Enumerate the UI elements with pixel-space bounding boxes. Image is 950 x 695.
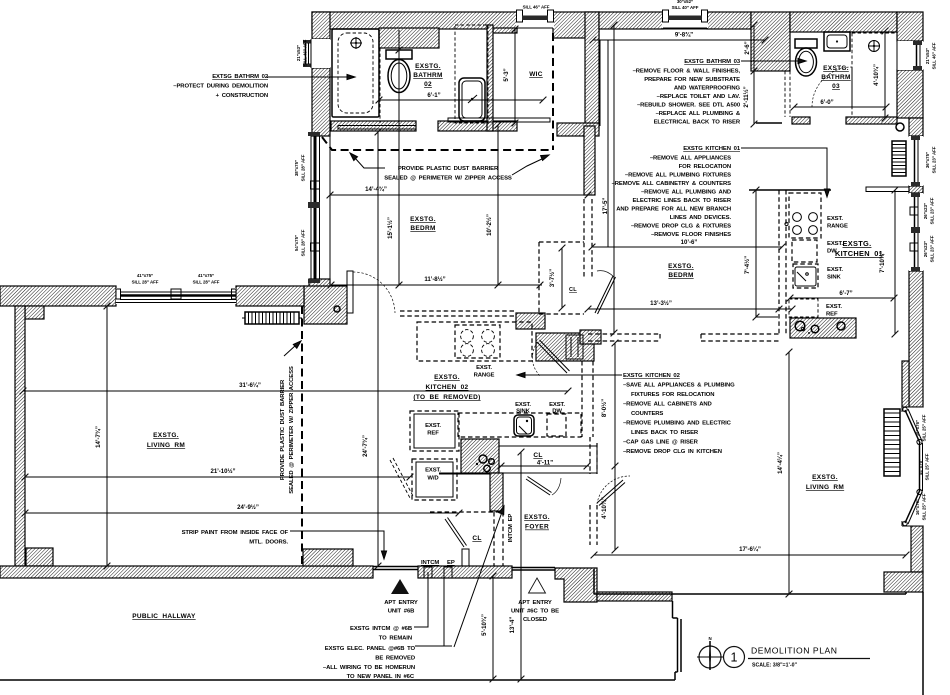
wall bathroom03 bottom stub east	[846, 117, 897, 124]
note bath02	[173, 74, 269, 99]
label exst range k01	[827, 216, 848, 230]
wall mid column below WIC	[584, 126, 595, 195]
svg-text:EXSTG.: EXSTG.	[524, 514, 550, 521]
svg-text:COUNTERS: COUNTERS	[631, 411, 663, 417]
wall notch above WIC	[493, 28, 517, 33]
svg-text:EXSTG.: EXSTG.	[843, 239, 872, 248]
shower dashes bath03	[851, 33, 853, 117]
wall top right corner	[897, 12, 923, 41]
dim 14'-4 3/4"	[327, 186, 592, 198]
svg-text:LIVING RM: LIVING RM	[147, 442, 185, 449]
ANNOTATION TEXT	[173, 59, 848, 680]
svg-text:EXSTG.: EXSTG.	[812, 474, 838, 481]
door arc bath03	[812, 67, 852, 107]
ROOM LABELS	[132, 63, 883, 620]
ref kitchen01	[789, 299, 818, 317]
svg-text:ELECTRIC LINES BACK TO RISER: ELECTRIC LINES BACK TO RISER	[633, 198, 732, 204]
svg-text:SINK: SINK	[516, 409, 531, 415]
svg-text:EXST.: EXST.	[826, 304, 842, 310]
svg-text:PREPARE FOR NEW SUBSTRATE: PREPARE FOR NEW SUBSTRATE	[644, 77, 740, 83]
svg-text:11’-8½”: 11’-8½”	[424, 276, 445, 283]
svg-text:BEDRM: BEDRM	[668, 272, 693, 279]
svg-text:CLOSED: CLOSED	[523, 617, 547, 623]
closet CL 4-11	[499, 446, 597, 473]
svg-text:EXSTG ELEC. PANEL @#6B TO: EXSTG ELEC. PANEL @#6B TO	[325, 646, 416, 652]
svg-text:36”x75”: 36”x75”	[925, 152, 930, 168]
window W7 kitchen01 east lower	[914, 233, 916, 267]
svg-text:EP: EP	[447, 560, 455, 566]
dim 21'-10 1/2"	[22, 468, 414, 480]
svg-text:–REMOVE ALL CABINETRY & COUNTE: –REMOVE ALL CABINETRY & COUNTERS	[612, 181, 732, 187]
dim 13'-4"	[509, 449, 524, 683]
sill label W4	[925, 42, 937, 69]
svg-text:EXSTG.: EXSTG.	[153, 432, 179, 439]
wall top band unit C mid	[707, 12, 751, 29]
dim 6'-1"	[376, 92, 547, 103]
FIXTURES	[332, 25, 904, 578]
svg-text:INTCM EP: INTCM EP	[508, 514, 514, 543]
foyer wall circles	[439, 455, 494, 474]
svg-text:SILL 23” AFF: SILL 23” AFF	[930, 235, 935, 262]
sill label W6	[923, 197, 935, 224]
svg-text:8’-0½”: 8’-0½”	[601, 399, 608, 417]
wall right side pier y118	[909, 118, 923, 136]
dim 3'-7 1/2" closet	[549, 245, 565, 312]
wall WIC east column	[585, 12, 599, 129]
svg-text:STRIP PAINT FROM INSIDE FACE O: STRIP PAINT FROM INSIDE FACE OF	[182, 530, 289, 536]
window W9 bedroom A west lower	[308, 208, 320, 283]
svg-text:–CAP GAS LINE @ RISER: –CAP GAS LINE @ RISER	[623, 440, 699, 446]
door in kitchen02 block	[566, 335, 583, 359]
dim 6'-0"	[791, 99, 890, 110]
svg-text:UNIT #6B: UNIT #6B	[388, 609, 415, 615]
svg-text:REF: REF	[826, 312, 838, 318]
sill label bay bottom	[915, 493, 927, 520]
dust barrier WIC vertical	[552, 33, 554, 150]
svg-text:CL: CL	[533, 452, 542, 459]
wire hallway threshold west gap	[373, 566, 418, 568]
svg-text:–PROTECT DURING DEMOLITION: –PROTECT DURING DEMOLITION	[173, 84, 268, 90]
svg-text:–REMOVE ALL PLUMBING AND: –REMOVE ALL PLUMBING AND	[641, 190, 731, 196]
svg-text:3’-7½”: 3’-7½”	[549, 269, 556, 287]
wall hallway pilaster mid	[303, 549, 353, 566]
svg-text:31’-6¼”: 31’-6¼”	[239, 382, 261, 389]
svg-text:SINK: SINK	[827, 275, 842, 281]
label exst sink k01	[827, 267, 843, 281]
wall hallway band main	[0, 566, 373, 578]
dim 17'-6 1/4"	[591, 546, 910, 558]
svg-text:WIC: WIC	[529, 71, 543, 78]
svg-text:ELECTRICAL BACK TO RISER: ELECTRICAL BACK TO RISER	[654, 120, 741, 126]
dim 14'-7 3/4"	[95, 303, 110, 570]
kitchen01 west dashed wall	[779, 190, 786, 334]
dust barrier living vertical	[301, 306, 303, 566]
svg-text:FIXTURES FOR RELOCATION: FIXTURES FOR RELOCATION	[631, 392, 714, 398]
leader dust barrier left	[348, 151, 385, 168]
wire right outline below wall	[922, 592, 924, 695]
note kitchen01	[612, 146, 741, 238]
wall west wing below window	[312, 68, 330, 136]
wall top band over bathroom02 tub	[312, 12, 517, 29]
window W6 kitchen01 east upper	[909, 193, 923, 271]
svg-text:41”x75”: 41”x75”	[137, 273, 153, 278]
door leaf kitchen02	[532, 340, 569, 376]
svg-text:16”x76”: 16”x76”	[915, 420, 920, 436]
label exst dw k02	[549, 402, 565, 415]
dim 31'-6 1/4"	[20, 382, 572, 394]
lav bath03	[824, 32, 850, 51]
svg-text:EXST.: EXST.	[549, 402, 565, 408]
svg-text:INTCM: INTCM	[421, 560, 439, 566]
svg-text:–REMOVE ALL CABINETS AND: –REMOVE ALL CABINETS AND	[623, 402, 712, 408]
svg-text:+ CONSTRUCTION: + CONSTRUCTION	[216, 93, 268, 99]
svg-text:4’-10¾”: 4’-10¾”	[873, 64, 880, 86]
svg-text:RANGE: RANGE	[827, 224, 848, 230]
wall hallway block 6C east	[555, 568, 597, 602]
svg-text:1: 1	[731, 651, 738, 665]
svg-text:EXST.: EXST.	[476, 365, 492, 371]
svg-text:APT ENTRY: APT ENTRY	[518, 600, 552, 606]
apt entry 6C	[511, 578, 559, 623]
svg-text:CL: CL	[472, 535, 481, 542]
kitchen02 sink counter dashed	[458, 413, 581, 437]
svg-text:MTL. DOORS.: MTL. DOORS.	[249, 540, 288, 546]
svg-text:SILL 28” AFF: SILL 28” AFF	[132, 280, 159, 285]
wall right pier between windows	[909, 186, 923, 193]
bathtub bath02	[332, 29, 379, 117]
wall hallway pilaster left	[26, 548, 53, 566]
svg-text:PROVIDE PLASTIC DUST BARRIER: PROVIDE PLASTIC DUST BARRIER	[398, 166, 499, 172]
svg-text:–REPLACE TOILET AND LAV.: –REPLACE TOILET AND LAV.	[657, 94, 741, 100]
svg-text:14’-7¾”: 14’-7¾”	[95, 426, 102, 448]
svg-text:LIVING RM: LIVING RM	[806, 484, 844, 491]
svg-text:4’-10¾”: 4’-10¾”	[601, 497, 608, 519]
svg-text:26”x23”: 26”x23”	[923, 241, 928, 257]
door bedroom A	[347, 271, 395, 313]
wall bathroom02 bottom band west	[331, 121, 416, 131]
wall above toilet bath02	[379, 28, 439, 48]
DASHED WALLS / BARRIERS	[302, 33, 786, 566]
leader panel note	[415, 645, 452, 647]
wall living top band west	[0, 286, 116, 306]
svg-text:BEDRM: BEDRM	[410, 225, 435, 232]
svg-text:SILL 46” AFF: SILL 46” AFF	[932, 42, 937, 69]
svg-text:21”x53”: 21”x53”	[925, 48, 930, 64]
sill label bay mid	[918, 453, 930, 480]
svg-text:EXSTG.: EXSTG.	[668, 263, 694, 270]
door closet foyer	[445, 518, 469, 567]
dim 8'-0 1/2"	[601, 340, 618, 554]
shower head bath03	[868, 40, 880, 52]
svg-text:LINES BACK TO RISER: LINES BACK TO RISER	[631, 430, 699, 436]
svg-text:5’-10¾”: 5’-10¾”	[481, 614, 488, 636]
svg-text:AND PREPARE FOR ALL NEW BRANCH: AND PREPARE FOR ALL NEW BRANCH	[616, 207, 731, 213]
svg-text:EXSTG.: EXSTG.	[434, 374, 460, 381]
svg-text:21”x53”: 21”x53”	[296, 45, 301, 61]
sill shelf kitchen01	[866, 187, 909, 192]
svg-text:SCALE: 3/8”=1’-0”: SCALE: 3/8”=1’-0”	[752, 663, 798, 669]
wall right below bay	[911, 526, 923, 572]
sill label W8	[294, 154, 306, 181]
svg-text:30”x52”: 30”x52”	[677, 0, 693, 4]
wall kitchen01 counter chase	[790, 318, 856, 338]
dw kitchen02	[547, 414, 566, 436]
leader kitchen02 note	[517, 372, 622, 377]
svg-text:–REMOVE PLUMBING AND ELECTRIC: –REMOVE PLUMBING AND ELECTRIC	[623, 421, 732, 427]
svg-text:–REBUILD SHOWER. SEE DTL A500: –REBUILD SHOWER. SEE DTL A500	[637, 103, 741, 109]
wall hallway band intcm	[418, 566, 512, 578]
svg-text:24’-9½”: 24’-9½”	[237, 504, 259, 511]
svg-text:SILL 28” AFF: SILL 28” AFF	[193, 280, 220, 285]
svg-text:PUBLIC HALLWAY: PUBLIC HALLWAY	[132, 613, 196, 620]
svg-text:–REMOVE FLOOR & WALL FINISHES,: –REMOVE FLOOR & WALL FINISHES,	[633, 69, 741, 75]
svg-text:38”x75”: 38”x75”	[294, 160, 299, 176]
svg-text:EXST.: EXST.	[515, 402, 531, 408]
range kitchen01	[785, 193, 821, 238]
wall west wing stub below windows	[309, 279, 330, 288]
bath03 west dashed wall	[784, 71, 786, 117]
leader bath03 note	[741, 58, 806, 63]
svg-text:UNIT #6C TO BE: UNIT #6C TO BE	[511, 609, 559, 615]
hinge circle wing corner	[334, 306, 340, 312]
wall west wing above window	[312, 12, 330, 39]
circle corner kitchen01	[896, 123, 904, 131]
svg-text:17’-6¼”: 17’-6¼”	[739, 546, 761, 553]
svg-text:15’-1½”: 15’-1½”	[387, 217, 394, 239]
dim 13'-3 1/2"	[585, 300, 796, 312]
svg-text:EXSTG KITCHEN 02: EXSTG KITCHEN 02	[623, 373, 681, 379]
dim 4'-10 3/4" bath03	[873, 28, 888, 122]
leader foyer intcm diagonal	[454, 505, 506, 647]
svg-text:KITCHEN 01: KITCHEN 01	[835, 249, 883, 258]
sill label W5	[925, 146, 937, 173]
dim 4'-10 3/4" foyer	[601, 497, 608, 519]
node corridor end line	[756, 122, 782, 124]
svg-text:10’-2½”: 10’-2½”	[486, 214, 493, 236]
leader dust barrier right	[512, 153, 550, 175]
svg-text:SILL 25” AFF: SILL 25” AFF	[922, 493, 927, 520]
WINDOWS	[116, 10, 923, 526]
window W3 bath02 west	[303, 39, 330, 68]
sink kitchen02	[514, 415, 534, 436]
toilet bath02	[386, 50, 412, 93]
dim 9'-8 3/4"	[590, 32, 769, 44]
closet bedroomA dashed	[539, 199, 592, 314]
kitchen02 east dashed wall	[582, 361, 597, 545]
note intcm	[323, 626, 416, 680]
svg-text:SILL 28” AFF: SILL 28” AFF	[301, 229, 306, 256]
svg-text:DEMOLITION PLAN: DEMOLITION PLAN	[751, 646, 838, 656]
svg-text:44”x76”: 44”x76”	[918, 459, 923, 475]
window W5 kitchen01 east	[909, 136, 923, 186]
note dust barrier top	[384, 166, 512, 182]
dashed partition right of tub	[379, 48, 381, 123]
label exst dw k01	[827, 241, 843, 255]
wall corridor block left of bathrm03	[751, 12, 790, 71]
chase circles kitchen01	[795, 321, 845, 334]
svg-text:6’-7”: 6’-7”	[839, 290, 852, 297]
svg-text:10’-6”: 10’-6”	[681, 239, 698, 246]
svg-text:APT ENTRY: APT ENTRY	[384, 600, 418, 606]
svg-text:EXSTG.: EXSTG.	[410, 216, 436, 223]
svg-text:SILL 25” AFF: SILL 25” AFF	[922, 414, 927, 441]
svg-text:EXST.: EXST.	[425, 423, 441, 429]
dim 7'-10 3/4"	[879, 187, 898, 338]
sill label bay top	[915, 414, 927, 441]
wire living C floor edge	[594, 593, 906, 595]
label exst ref k02	[425, 423, 441, 437]
room edge helper lines	[330, 40, 608, 286]
svg-text:FOR RELOCATION: FOR RELOCATION	[679, 164, 731, 170]
leader intcm note	[414, 572, 428, 627]
dim 5'-10 3/4"	[481, 573, 496, 683]
dim 5'-3" WIC	[503, 26, 518, 127]
leader strip paint	[290, 531, 387, 559]
svg-text:6’-1”: 6’-1”	[427, 92, 440, 99]
wire corridor bottom unit C	[749, 189, 831, 191]
wall step left of bay	[902, 361, 909, 407]
radiator living A	[242, 312, 302, 324]
svg-text:TO REMAIN: TO REMAIN	[379, 636, 412, 642]
leader kitchen01 note	[741, 148, 830, 197]
svg-text:6’-0”: 6’-0”	[820, 99, 833, 106]
svg-text:REF: REF	[427, 431, 439, 437]
svg-text:EXST.: EXST.	[827, 216, 843, 222]
dim 10'-6"	[589, 239, 786, 250]
wall living top band east	[236, 286, 304, 306]
note strip paint	[182, 530, 289, 546]
dim 24'-7 3/4"	[362, 129, 381, 570]
kitchen02 counter dashed	[417, 322, 532, 361]
dim 6'-7"	[787, 290, 898, 301]
svg-text:–REMOVE DROP CLG IN KITCHEN: –REMOVE DROP CLG IN KITCHEN	[623, 449, 722, 455]
window W8 bedroom A west upper	[308, 132, 320, 208]
svg-text:AND WATERPROOFING: AND WATERPROOFING	[674, 86, 741, 92]
wall vanity east	[487, 25, 493, 131]
dim 7'-4 1/2"	[744, 187, 778, 321]
wall right below double window	[909, 271, 923, 407]
wire hallway threshold 6C gap	[512, 567, 555, 569]
range kitchen02	[455, 325, 500, 358]
svg-text:13’-3½”: 13’-3½”	[650, 300, 672, 307]
wall bedroom C SW block	[580, 330, 601, 344]
door bedroom C leaf	[595, 271, 616, 314]
note kitchen02	[623, 373, 735, 455]
svg-text:SILL 23” AFF: SILL 23” AFF	[930, 197, 935, 224]
TITLE BLOCK	[697, 636, 870, 670]
bedroomA south dashed	[400, 311, 514, 316]
wall bottom step band	[597, 592, 672, 601]
dim 11'-8 1/2"	[328, 276, 544, 288]
svg-text:02: 02	[424, 81, 432, 88]
svg-text:SILL 28” AFF: SILL 28” AFF	[301, 154, 306, 181]
svg-text:SILL 25” AFF: SILL 25” AFF	[925, 453, 930, 480]
apt entry 6B	[384, 579, 418, 615]
svg-text:–REMOVE DROP CLG & FIXTURES: –REMOVE DROP CLG & FIXTURES	[631, 224, 731, 230]
wire living C west wall edge	[593, 569, 595, 594]
leader bath02 note	[267, 74, 355, 79]
wall kitchen02 pillar	[516, 313, 545, 329]
svg-text:–REMOVE ALL PLUMBING FIXTURES: –REMOVE ALL PLUMBING FIXTURES	[625, 173, 731, 179]
wall foyer angled	[461, 439, 499, 473]
svg-text:CL: CL	[569, 287, 577, 293]
window W1 top over WIC	[516, 10, 554, 28]
svg-text:EXSTG BATHRM 03: EXSTG BATHRM 03	[684, 59, 741, 65]
closet foyer dashes	[430, 512, 503, 566]
note dust barrier living vertical	[280, 366, 295, 494]
wall bottom right corner block	[884, 572, 923, 592]
window W4 bath03 east	[897, 41, 923, 70]
svg-text:SILL 40” AFF: SILL 40” AFF	[672, 5, 699, 10]
label exst sink k02	[515, 402, 531, 415]
svg-text:–REPLACE ALL PLUMBING &: –REPLACE ALL PLUMBING &	[656, 111, 741, 117]
wall kitchen02/foyer block with door	[536, 333, 594, 361]
svg-text:W/D: W/D	[427, 476, 438, 482]
svg-text:21’-10½”: 21’-10½”	[210, 468, 235, 475]
note bath03	[633, 59, 741, 126]
svg-text:7’-4½”: 7’-4½”	[744, 256, 751, 274]
wall left exterior	[15, 306, 25, 566]
svg-text:LINES AND DEVICES.: LINES AND DEVICES.	[670, 215, 732, 221]
threshold lines bath02	[338, 126, 416, 130]
svg-text:BE REMOVED: BE REMOVED	[375, 656, 415, 662]
svg-text:EXSTG.: EXSTG.	[415, 63, 441, 70]
wall top band over bathroom03	[790, 12, 897, 32]
svg-text:SILL 46” AFF: SILL 46” AFF	[303, 39, 308, 66]
svg-text:BATHRM: BATHRM	[821, 74, 850, 81]
wall right of bathroom03 window	[897, 70, 923, 118]
drawing number circle	[724, 647, 745, 668]
svg-text:SILL 46” AFF: SILL 46” AFF	[523, 5, 550, 10]
ref kitchen02	[410, 411, 459, 451]
svg-text:(TO BE REMOVED): (TO BE REMOVED)	[413, 394, 480, 401]
svg-text:EXSTG KITCHEN 01: EXSTG KITCHEN 01	[683, 146, 741, 152]
radiator living C	[884, 409, 900, 476]
label exst ref k01	[826, 304, 842, 318]
svg-text:PROVIDE PLASTIC DUST BARRIER: PROVIDE PLASTIC DUST BARRIER	[280, 379, 286, 480]
washer dryer	[390, 458, 457, 500]
label exst range k02	[474, 365, 495, 379]
bay window living C	[902, 407, 923, 526]
label exst w/d	[425, 468, 441, 482]
svg-text:BATHRM: BATHRM	[413, 72, 442, 79]
dim 2'-6"	[744, 22, 757, 75]
svg-text:SILL 23” AFF: SILL 23” AFF	[932, 146, 937, 173]
svg-text:–ALL WIRING TO BE HOMERUN: –ALL WIRING TO BE HOMERUN	[323, 665, 415, 671]
svg-text:17’-5”: 17’-5”	[602, 198, 609, 215]
svg-text:TO NEW PANEL IN #6C: TO NEW PANEL IN #6C	[347, 674, 415, 680]
svg-text:EXST.: EXST.	[425, 468, 441, 474]
svg-text:EXST.: EXST.	[827, 241, 843, 247]
dim 10'-2 1/2"	[486, 122, 501, 289]
svg-text:EXSTG.: EXSTG.	[823, 65, 849, 72]
wall bathroom02 bottom band east	[438, 121, 517, 131]
svg-text:DW: DW	[552, 409, 562, 415]
svg-text:14’-4¾”: 14’-4¾”	[365, 186, 387, 193]
wire band bottom under window W2	[663, 28, 707, 30]
svg-text:14’-4¼”: 14’-4¼”	[777, 452, 784, 474]
dim 15'-1 1/2"	[387, 30, 402, 288]
svg-text:–REMOVE ALL APPLIANCES: –REMOVE ALL APPLIANCES	[650, 156, 731, 162]
sill label W3	[296, 39, 308, 66]
dim 24'-9 1/2"	[22, 504, 463, 516]
svg-text:EXST.: EXST.	[827, 267, 843, 273]
svg-text:41”x75”: 41”x75”	[198, 273, 214, 278]
svg-text:16”x76”: 16”x76”	[915, 499, 920, 515]
dust barrier bath02 horizontal	[322, 137, 553, 150]
svg-text:26”x23”: 26”x23”	[923, 203, 928, 219]
window W2 top unit C	[662, 10, 708, 28]
